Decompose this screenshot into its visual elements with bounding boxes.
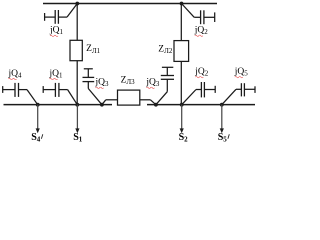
label jQ1 top <box>49 26 64 37</box>
wire right branch upper <box>180 4 182 41</box>
node junction top-right <box>180 2 184 6</box>
impedance ZL1 box <box>70 40 82 60</box>
node S2 junction <box>180 103 184 107</box>
label S5' <box>218 132 230 144</box>
capacitor jQ2 bottom (line 2 charging, lower end) <box>182 82 216 105</box>
svg-text:S5: S5 <box>218 132 228 144</box>
node ZL3 left junction <box>100 103 104 107</box>
node junction top-left <box>75 2 79 6</box>
capacitor jQ3 right (line 3 charging, right end) <box>156 67 174 104</box>
svg-text:jQ3: jQ3 <box>145 78 160 89</box>
capacitor jQ2 top (line 2 charging, upper end) <box>182 4 215 25</box>
svg-text:jQ1: jQ1 <box>49 69 64 80</box>
svg-text:ZЛ2: ZЛ2 <box>158 45 173 56</box>
wire bottom-left bus <box>4 104 113 106</box>
svg-text:jQ1: jQ1 <box>49 26 64 37</box>
svg-text:S4: S4 <box>31 132 41 144</box>
label jQ2 bottom <box>194 67 209 78</box>
svg-text:jQ5: jQ5 <box>234 67 249 78</box>
wire top bus <box>43 3 217 5</box>
load arrow S2 <box>180 105 184 134</box>
label jQ2 top <box>194 25 209 36</box>
capacitor jQ1 bottom (line 1 charging, lower end) <box>43 83 77 105</box>
capacitor jQ3 left (line 3 charging, left end) <box>83 69 102 105</box>
label jQ4 <box>8 69 23 80</box>
label jQ5 <box>234 67 249 78</box>
svg-text:S1: S1 <box>73 132 83 144</box>
node S1 junction <box>75 103 79 107</box>
node ZL3 right junction <box>154 103 158 107</box>
svg-text:ZЛ3: ZЛ3 <box>121 75 136 86</box>
label S4' <box>31 132 43 144</box>
capacitor jQ1 top (line 1 charging, upper end) <box>45 4 78 24</box>
impedance ZL2 box <box>174 41 189 62</box>
wire right branch lower <box>180 61 182 104</box>
impedance ZL3 box <box>118 90 140 105</box>
wire ZL3 left lead <box>102 100 118 105</box>
capacitor jQ4 (line 4 charging) <box>3 83 38 105</box>
wire left branch upper <box>76 4 78 41</box>
svg-text:jQ2: jQ2 <box>194 25 209 36</box>
svg-text:jQ4: jQ4 <box>8 69 23 80</box>
svg-text:S2: S2 <box>179 132 189 144</box>
svg-text:jQ3: jQ3 <box>95 78 110 89</box>
label jQ3 right <box>145 78 160 89</box>
load arrow S1 <box>75 105 79 134</box>
wire left branch lower <box>76 61 78 105</box>
label jQ1 bottom <box>49 69 64 80</box>
wire bottom-right bus <box>147 104 255 106</box>
wire ZL3 right lead <box>140 100 156 105</box>
load arrow S4' <box>36 105 40 134</box>
node S5 junction <box>220 103 224 107</box>
svg-text:ZЛ1: ZЛ1 <box>86 44 101 55</box>
capacitor jQ5 (line 5 charging) <box>222 83 255 105</box>
load arrow S5' <box>220 105 224 134</box>
node S4 junction <box>36 103 40 107</box>
svg-text:jQ2: jQ2 <box>194 67 209 78</box>
label jQ3 left <box>95 78 110 89</box>
